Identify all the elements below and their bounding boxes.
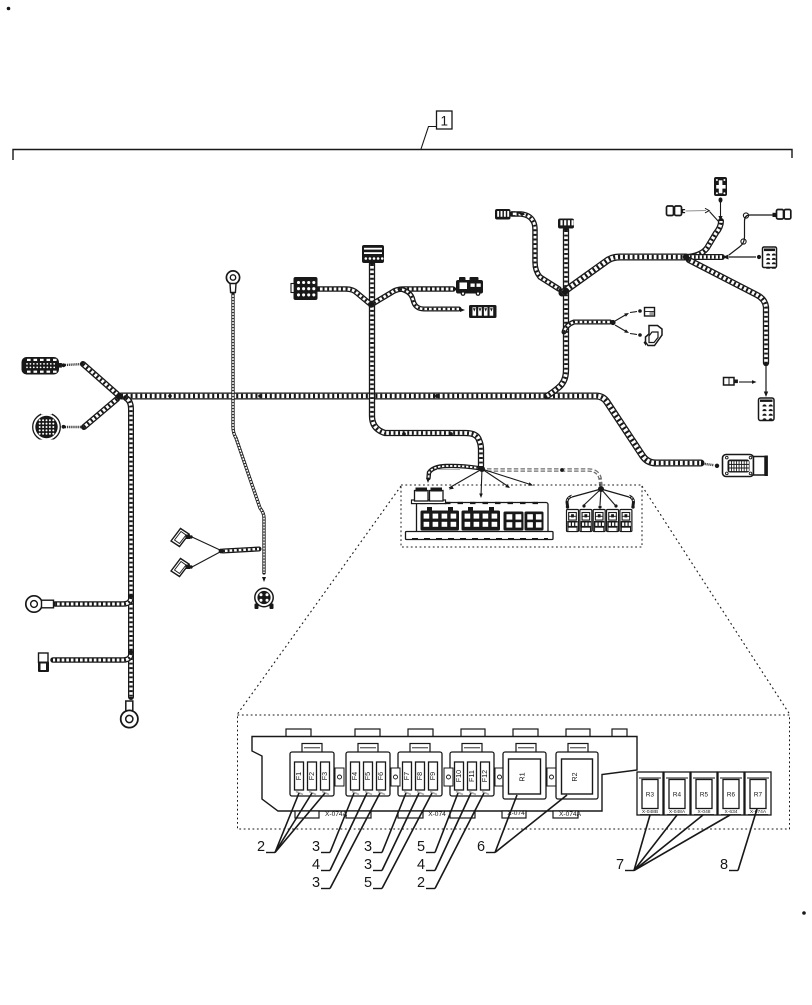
wire branch to cross component — [686, 221, 721, 257]
svg-text:2: 2 — [417, 875, 425, 891]
fuse F7 — [403, 762, 412, 790]
connector X2 round multi-pin — [33, 413, 61, 441]
line cross component to chain — [720, 202, 722, 216]
fuse F12 — [481, 762, 490, 790]
fuse holder group F7-F9 — [410, 744, 430, 753]
pigtail into X-074 — [701, 464, 714, 466]
fuse holder group F4-F6 — [358, 744, 378, 753]
wire long diagonal to connector X5 — [689, 260, 766, 363]
fuse F3 — [321, 762, 330, 790]
big dashed detail box — [238, 715, 790, 829]
spade terminal S2 — [171, 559, 189, 577]
svg-text:3: 3 — [364, 857, 372, 873]
mini fusebox dashed detail box — [401, 485, 642, 547]
svg-text:F7: F7 — [402, 772, 411, 780]
svg-text:F8: F8 — [415, 772, 424, 780]
connector X3 small round — [255, 588, 273, 606]
line C6 to X5 drop — [739, 381, 752, 383]
svg-text:4: 4 — [417, 857, 425, 873]
svg-text:2: 2 — [257, 839, 265, 855]
svg-text:F1: F1 — [294, 772, 303, 780]
wire fork to connector X2 — [84, 399, 117, 427]
connector C6 — [724, 378, 735, 386]
fuse F9 — [429, 762, 438, 790]
label 1 box — [437, 111, 453, 129]
connector C1 cross fastener — [714, 177, 727, 196]
svg-text:3: 3 — [312, 875, 320, 891]
wire branch vertical x565 — [547, 230, 566, 396]
fuse holder group F1-F3 — [302, 744, 322, 753]
mini connector block 1 — [421, 511, 460, 531]
svg-text:3: 3 — [312, 839, 320, 855]
svg-text:4: 4 — [312, 857, 320, 873]
thin gray stub — [437, 469, 460, 471]
fusebox junction — [479, 466, 485, 472]
connector B1 small — [39, 653, 49, 663]
svg-text:F10: F10 — [454, 770, 463, 782]
relay R4 — [664, 772, 690, 815]
svg-text:5: 5 — [364, 875, 372, 891]
svg-text:R4: R4 — [673, 792, 682, 799]
loom flat gray to relay fan — [487, 470, 601, 486]
wire upper trunk diagonal — [562, 257, 686, 293]
panel outline — [252, 737, 637, 812]
fan lines to relays — [572, 489, 601, 497]
mini connector block 4 — [525, 512, 544, 531]
pigtail connector X1 — [65, 364, 83, 365]
ring terminal G1 — [26, 596, 42, 612]
wire branch to ring terminal G1 — [55, 597, 131, 604]
svg-text:7: 7 — [616, 857, 624, 873]
junction dots — [119, 394, 123, 398]
svg-text:R3: R3 — [646, 792, 655, 799]
svg-text:3: 3 — [364, 839, 372, 855]
pigtail connector X2 — [65, 426, 83, 428]
wire branch to connector B1 — [53, 653, 131, 660]
page dot bottom-right — [802, 911, 806, 915]
wire branch vertical mid (X-fusebox feed) — [372, 264, 481, 466]
mini fusebox body — [417, 503, 549, 534]
svg-text:F6: F6 — [376, 772, 385, 780]
fuse F5 — [364, 762, 373, 790]
ring terminal R-T1 — [226, 271, 239, 284]
svg-text:F9: F9 — [428, 772, 437, 780]
connector X-074 ECU — [723, 455, 754, 477]
wire hook into fusebox top component — [429, 466, 479, 478]
mini connector block 3 — [504, 512, 524, 531]
wire branch vertical left — [126, 398, 131, 697]
lines spade connectors to junction — [192, 537, 220, 550]
label 1 leader — [421, 127, 436, 150]
connector C2 twin socket — [667, 206, 674, 216]
fuse F11 — [468, 762, 477, 790]
fuse F10 — [455, 762, 464, 790]
fuse F8 — [416, 762, 425, 790]
fuse panel body — [286, 729, 311, 737]
svg-text:1: 1 — [440, 114, 448, 129]
svg-text:6: 6 — [477, 839, 485, 855]
svg-text:R7: R7 — [754, 792, 763, 799]
wire branch connector C8 — [512, 214, 559, 289]
wire branch to C14/C15 fan — [564, 322, 610, 332]
connector C12 — [456, 280, 483, 294]
svg-text:F12: F12 — [480, 770, 489, 782]
svg-text:F11: F11 — [467, 770, 476, 782]
wire stub to connector X4 — [686, 254, 722, 260]
connector X5 striped socket — [759, 398, 775, 421]
arrow into C12 — [454, 287, 459, 291]
connector C14 — [645, 308, 655, 317]
relay R6 — [718, 772, 744, 815]
svg-text:X-074A: X-074A — [559, 811, 582, 818]
svg-text:8: 8 — [720, 857, 728, 873]
svg-text:R6: R6 — [727, 792, 736, 799]
lines to C14 C15 — [615, 314, 627, 321]
page dot top-left — [7, 7, 11, 11]
relay R5 — [691, 772, 717, 815]
connector C10 ribbed — [362, 245, 384, 263]
wire fork to connector X1 — [83, 364, 117, 394]
line to connector X4 (striped) — [729, 256, 756, 258]
line C3 to junction — [729, 215, 773, 255]
connector C3 twin socket — [777, 210, 784, 220]
arrow to connector X3 — [262, 577, 266, 582]
ring terminal G2 bottom — [126, 701, 133, 714]
svg-text:F5: F5 — [363, 772, 372, 780]
fuse holder group F10-F12 — [462, 744, 482, 753]
mini relay fuse component on top — [412, 500, 446, 504]
wire branch to connectors C12/C13 — [374, 289, 453, 303]
mini connector block 2 — [462, 511, 501, 531]
spade terminal S1 — [171, 529, 189, 547]
connector X4 striped socket — [763, 247, 777, 268]
mini relays R3-R7 — [567, 510, 579, 532]
detail projection dashed lines — [238, 486, 402, 714]
relay R1 holder — [516, 744, 536, 753]
arrow into C13 — [460, 308, 465, 312]
svg-text:R2: R2 — [570, 772, 579, 781]
wire spade junction chain — [223, 549, 259, 551]
svg-text:F2: F2 — [307, 772, 316, 780]
wire ring terminal R-T1 thin — [233, 294, 264, 573]
wire branch from grid connector C11 — [318, 289, 369, 303]
fuse F4 — [351, 762, 360, 790]
bracket item 1 — [13, 150, 792, 161]
connector C11 grid — [294, 277, 318, 300]
svg-text:F3: F3 — [320, 772, 329, 780]
svg-text:5: 5 — [417, 839, 425, 855]
connector C13 — [469, 305, 497, 318]
fuse F1 — [295, 762, 304, 790]
connector C8 — [495, 209, 511, 220]
fuse F2 — [308, 762, 317, 790]
wire trunk main horizontal — [121, 396, 701, 463]
relay R2 holder — [568, 744, 588, 753]
relay fan junction — [598, 486, 604, 492]
relay R7 — [745, 772, 771, 815]
connector C15 bracket — [646, 326, 663, 346]
connector C9 — [558, 219, 574, 229]
fuse F6 — [377, 762, 386, 790]
connector X1 oval multi-pin — [22, 357, 60, 375]
svg-text:R5: R5 — [700, 792, 709, 799]
svg-text:F4: F4 — [350, 772, 359, 780]
line C2 to junction — [685, 210, 706, 213]
svg-text:R1: R1 — [518, 772, 527, 781]
relay R3 — [637, 772, 663, 815]
svg-text:X-074: X-074 — [428, 811, 446, 818]
fan lines to fusebox connectors — [449, 469, 482, 488]
line to connector X5 (striped) with arrow — [765, 366, 767, 392]
